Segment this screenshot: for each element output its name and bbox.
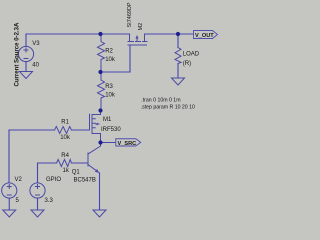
flag V_OUT xyxy=(194,31,218,40)
svg-text:1k: 1k xyxy=(63,168,70,174)
svg-text:V3: V3 xyxy=(32,41,40,47)
wire V2 bottom stem xyxy=(8,198,10,210)
ground below Q1 emitter xyxy=(93,210,106,217)
wire Q1 emitter to ground xyxy=(99,173,101,210)
svg-text:IRF530: IRF530 xyxy=(101,127,121,133)
svg-text:R3: R3 xyxy=(105,84,113,90)
wire GPIO bottom stem xyxy=(37,198,39,210)
ground below GPIO xyxy=(31,210,44,217)
svg-text:M2: M2 xyxy=(138,23,144,31)
svg-text:Current Source 0-2.3A: Current Source 0-2.3A xyxy=(15,22,21,86)
svg-text:R4: R4 xyxy=(61,153,69,159)
ground below V2 xyxy=(3,210,16,217)
wire top rail right xyxy=(145,33,194,35)
svg-text:3.3: 3.3 xyxy=(45,198,54,204)
resistor R1 xyxy=(55,127,72,134)
svg-text:.step param R 10 20 10: .step param R 10 20 10 xyxy=(141,105,195,111)
transistor Q1 (NPN BC547B) xyxy=(88,143,101,174)
svg-text:V_SRC: V_SRC xyxy=(118,141,137,147)
svg-text:LOAD: LOAD xyxy=(183,52,200,58)
wire V2 to R1 xyxy=(9,130,55,183)
svg-text:10k: 10k xyxy=(105,93,116,99)
svg-text:GPIO: GPIO xyxy=(46,177,61,183)
resistor R3 xyxy=(98,72,105,111)
resistor R4 xyxy=(57,160,72,167)
svg-text:M1: M1 xyxy=(103,117,112,123)
svg-text:R2: R2 xyxy=(105,49,113,55)
wire node to V_SRC flag xyxy=(101,142,116,144)
svg-text:10k: 10k xyxy=(60,135,71,141)
wire LOAD top xyxy=(177,34,179,48)
node junction top rail / LOAD xyxy=(176,32,180,36)
voltage source GPIO xyxy=(30,183,45,198)
wire R1 to M1 gate xyxy=(72,129,90,131)
flag V_SRC xyxy=(116,139,141,147)
svg-text:Q1: Q1 xyxy=(72,170,81,176)
svg-text:(R): (R) xyxy=(183,61,191,67)
wire V3 top stem xyxy=(25,34,27,47)
wire GPIO to R4 xyxy=(38,163,57,183)
svg-text:10k: 10k xyxy=(105,57,116,63)
svg-text:.tran 0 10m 0 1m: .tran 0 10m 0 1m xyxy=(141,98,180,104)
node M1 source / Q1 collector / V_SRC xyxy=(98,140,102,144)
wire R4 to Q1 base xyxy=(72,162,89,164)
wire LOAD bottom xyxy=(177,64,179,79)
resistor R2 xyxy=(98,34,105,72)
voltage source V2 xyxy=(2,183,17,198)
svg-text:40: 40 xyxy=(32,63,39,69)
node R2/R3/M2 gate xyxy=(98,70,102,74)
node junction top rail / R2 xyxy=(98,32,102,36)
resistor LOAD xyxy=(175,48,181,64)
mosfet M1 (NMOS IRF530) xyxy=(90,111,101,143)
node R3/M1 drain xyxy=(98,108,102,112)
wire V3 bottom stem xyxy=(25,62,27,72)
svg-text:V2: V2 xyxy=(15,177,23,183)
mosfet M2 (PMOS SI7469DP) xyxy=(128,34,147,45)
svg-text:BC547B: BC547B xyxy=(74,178,96,184)
voltage source V3 xyxy=(18,46,33,61)
svg-text:R1: R1 xyxy=(61,120,69,126)
svg-text:SI7469DP: SI7469DP xyxy=(127,2,133,27)
wire gate of M2 to node xyxy=(101,46,130,73)
wire top rail left xyxy=(26,33,130,35)
svg-text:V_OUT: V_OUT xyxy=(195,33,214,39)
ground below V3 xyxy=(20,72,33,79)
ground below LOAD xyxy=(172,78,185,85)
